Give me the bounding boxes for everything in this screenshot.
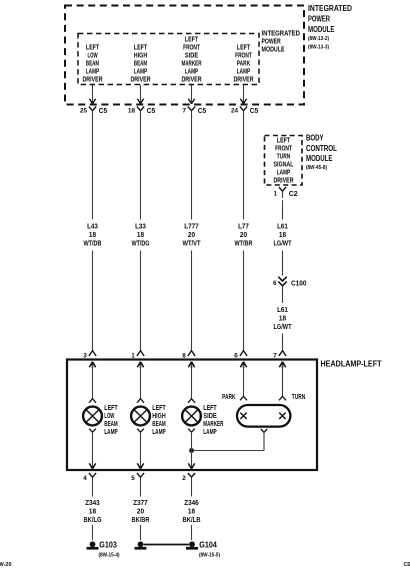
svg-text:POWER: POWER <box>308 15 330 24</box>
svg-text:BK/BR: BK/BR <box>132 517 150 524</box>
svg-text:2: 2 <box>182 475 186 482</box>
svg-text:FRONT: FRONT <box>235 52 252 59</box>
ground splice <box>135 541 147 549</box>
svg-text:WT/VT: WT/VT <box>183 241 202 248</box>
body control module dashed box <box>265 136 303 186</box>
svg-text:SIDE: SIDE <box>203 413 217 420</box>
wire pin7 to turn filament <box>279 364 286 400</box>
svg-text:POWER: POWER <box>262 39 281 46</box>
lamp left side marker <box>182 364 223 436</box>
svg-text:DRIVER: DRIVER <box>233 76 253 83</box>
junction node <box>189 448 194 453</box>
turn label <box>292 394 305 401</box>
svg-text:4: 4 <box>83 475 87 482</box>
svg-text:LAMP: LAMP <box>277 170 291 177</box>
svg-text:LOW: LOW <box>87 52 97 59</box>
svg-text:20: 20 <box>188 232 195 239</box>
svg-text:G103: G103 <box>99 540 117 549</box>
left high beam lamp driver <box>130 44 150 83</box>
svg-text:1: 1 <box>131 352 135 359</box>
svg-text:WT/DB: WT/DB <box>84 241 102 248</box>
svg-text:25: 25 <box>80 108 87 115</box>
svg-text:C5: C5 <box>147 106 156 115</box>
svg-text:W-20: W-20 <box>0 562 12 568</box>
svg-text:C5: C5 <box>99 106 108 115</box>
svg-text:6: 6 <box>234 352 238 359</box>
left low beam lamp driver <box>82 44 102 83</box>
headlamp pin 3 <box>83 351 96 368</box>
svg-text:FRONT: FRONT <box>183 44 200 51</box>
wire side marker return <box>188 432 194 469</box>
svg-text:LEFT: LEFT <box>277 138 291 145</box>
ground G104 <box>186 540 220 558</box>
park label <box>222 394 235 401</box>
svg-text:WT/DG: WT/DG <box>132 241 150 248</box>
wire Z346 <box>183 483 201 540</box>
headlamp pin 4 <box>83 473 96 483</box>
svg-text:1: 1 <box>274 191 278 198</box>
svg-text:BK/LB: BK/LB <box>183 517 201 524</box>
svg-text:(8W-15-5): (8W-15-5) <box>199 553 220 559</box>
svg-text:LOW: LOW <box>104 413 114 420</box>
wire Z343 <box>84 483 102 540</box>
svg-text:LAMP: LAMP <box>203 429 217 436</box>
svg-text:BEAM: BEAM <box>86 60 100 67</box>
wire park/turn return <box>192 429 268 451</box>
svg-text:6: 6 <box>273 280 277 287</box>
headlamp-left label <box>321 359 382 368</box>
integrated power module label <box>308 4 352 50</box>
headlamp pin 2 <box>182 473 195 483</box>
svg-text:18: 18 <box>128 108 135 115</box>
svg-text:24: 24 <box>231 108 238 115</box>
headlamp pin 8 <box>182 351 195 368</box>
svg-text:LAMP: LAMP <box>152 429 166 436</box>
svg-text:20: 20 <box>240 232 247 239</box>
svg-text:TURN: TURN <box>292 394 305 401</box>
wire L33 <box>132 116 150 350</box>
connector C5 pin 7 <box>183 85 207 118</box>
svg-text:(8W-13-2): (8W-13-2) <box>308 36 329 42</box>
svg-text:HIGH: HIGH <box>152 413 165 420</box>
svg-text:MODULE: MODULE <box>308 25 335 34</box>
svg-text:SIDE: SIDE <box>185 52 199 59</box>
svg-text:(8W-13-3): (8W-13-3) <box>308 44 329 50</box>
svg-text:DRIVER: DRIVER <box>273 178 293 185</box>
svg-text:C100: C100 <box>291 279 307 288</box>
svg-text:BK/LG: BK/LG <box>84 517 102 524</box>
svg-text:BEAM: BEAM <box>152 421 166 428</box>
svg-text:MODULE: MODULE <box>262 47 285 54</box>
svg-text:LAMP: LAMP <box>86 68 100 75</box>
svg-text:LEFT: LEFT <box>237 44 251 51</box>
svg-text:G104: G104 <box>199 540 217 549</box>
svg-text:LEFT: LEFT <box>104 405 118 412</box>
body control module label <box>306 133 337 171</box>
wire L61 upper <box>274 200 293 275</box>
svg-text:MODULE: MODULE <box>306 154 333 163</box>
headlamp pin 6 <box>234 351 247 368</box>
svg-text:Z377: Z377 <box>133 500 148 507</box>
svg-text:L61: L61 <box>277 307 288 314</box>
svg-text:L777: L777 <box>184 224 199 231</box>
svg-text:18: 18 <box>137 232 144 239</box>
svg-text:20: 20 <box>137 508 144 515</box>
svg-text:CS: CS <box>404 562 410 568</box>
left front turn signal lamp driver <box>273 138 293 185</box>
headlamp-left box <box>67 360 317 471</box>
svg-text:INTEGRATED: INTEGRATED <box>308 4 352 13</box>
svg-text:BEAM: BEAM <box>134 60 148 67</box>
connector C100 pin 6 <box>273 277 307 288</box>
svg-text:(8W-45-8): (8W-45-8) <box>306 165 327 171</box>
integrated power module outer dashed box <box>65 6 304 105</box>
svg-text:7: 7 <box>273 352 277 359</box>
page footer right <box>404 562 410 568</box>
svg-text:7: 7 <box>183 108 187 115</box>
ground tie wire <box>144 544 189 546</box>
svg-text:LEFT: LEFT <box>152 405 166 412</box>
svg-text:LG/WT: LG/WT <box>274 241 293 248</box>
svg-text:BODY: BODY <box>306 133 324 142</box>
svg-text:DRIVER: DRIVER <box>130 76 150 83</box>
svg-text:LAMP: LAMP <box>237 68 251 75</box>
svg-text:8: 8 <box>182 352 186 359</box>
wire pin6 to park filament <box>240 364 247 400</box>
headlamp pin 5 <box>131 473 144 483</box>
svg-text:MARKER: MARKER <box>203 421 223 428</box>
svg-text:18: 18 <box>89 508 96 515</box>
svg-text:WT/BR: WT/BR <box>235 241 253 248</box>
svg-text:18: 18 <box>279 315 286 322</box>
left front park lamp driver <box>233 44 253 83</box>
wire Z377 <box>132 483 150 540</box>
wire low beam return <box>89 432 95 469</box>
connector C5 pin 18 <box>128 85 155 118</box>
svg-text:L77: L77 <box>238 224 249 231</box>
headlamp pin 7 <box>273 351 286 368</box>
wire L77 <box>235 116 253 350</box>
svg-text:L33: L33 <box>135 224 146 231</box>
svg-text:MARKER: MARKER <box>181 60 201 67</box>
svg-text:LEFT: LEFT <box>203 405 217 412</box>
svg-text:Z346: Z346 <box>184 500 199 507</box>
integrated power module inner label <box>262 31 301 54</box>
svg-text:LG/WT: LG/WT <box>274 324 293 331</box>
svg-text:LAMP: LAMP <box>185 68 199 75</box>
headlamp pin 1 <box>131 351 144 368</box>
svg-text:C5: C5 <box>198 106 207 115</box>
svg-text:FRONT: FRONT <box>275 146 292 153</box>
svg-text:LEFT: LEFT <box>134 44 148 51</box>
lamp left low beam <box>83 364 118 436</box>
svg-text:5: 5 <box>131 475 135 482</box>
svg-text:LEFT: LEFT <box>86 44 100 51</box>
park/turn lamp oval <box>237 405 290 427</box>
svg-text:18: 18 <box>188 508 195 515</box>
svg-text:CONTROL: CONTROL <box>306 144 337 153</box>
svg-text:C2: C2 <box>289 189 298 198</box>
svg-text:TURN: TURN <box>277 154 290 161</box>
svg-text:18: 18 <box>89 232 96 239</box>
wire L43 <box>84 116 102 350</box>
svg-text:LAMP: LAMP <box>134 68 148 75</box>
left front side marker lamp driver <box>181 36 201 83</box>
svg-text:Z343: Z343 <box>85 500 100 507</box>
svg-text:LEFT: LEFT <box>185 36 199 43</box>
svg-text:BEAM: BEAM <box>104 421 118 428</box>
svg-text:DRIVER: DRIVER <box>82 76 102 83</box>
svg-text:PARK: PARK <box>222 394 235 401</box>
wire high beam return <box>137 432 143 469</box>
svg-text:3: 3 <box>83 352 87 359</box>
wire L777 <box>183 116 202 350</box>
driver block inner dashed box <box>78 34 259 85</box>
connector C2 pin 1 <box>274 187 298 198</box>
svg-text:18: 18 <box>279 232 286 239</box>
svg-text:LAMP: LAMP <box>104 429 118 436</box>
svg-text:DRIVER: DRIVER <box>181 76 201 83</box>
svg-text:(8W-15-4): (8W-15-4) <box>99 553 120 559</box>
svg-text:HIGH: HIGH <box>134 52 147 59</box>
connector C5 pin 24 <box>231 85 258 118</box>
page footer left <box>0 562 12 568</box>
svg-text:PARK: PARK <box>237 60 250 67</box>
svg-text:HEADLAMP-LEFT: HEADLAMP-LEFT <box>321 359 382 368</box>
svg-text:C5: C5 <box>250 106 259 115</box>
svg-text:SIGNAL: SIGNAL <box>273 162 293 169</box>
svg-text:L43: L43 <box>87 224 98 231</box>
lamp left high beam <box>131 364 166 436</box>
svg-text:L61: L61 <box>277 224 288 231</box>
ground G103 <box>87 540 120 558</box>
wire L61 lower <box>274 286 293 350</box>
connector C5 pin 25 <box>80 85 107 118</box>
svg-text:INTEGRATED: INTEGRATED <box>262 31 301 38</box>
